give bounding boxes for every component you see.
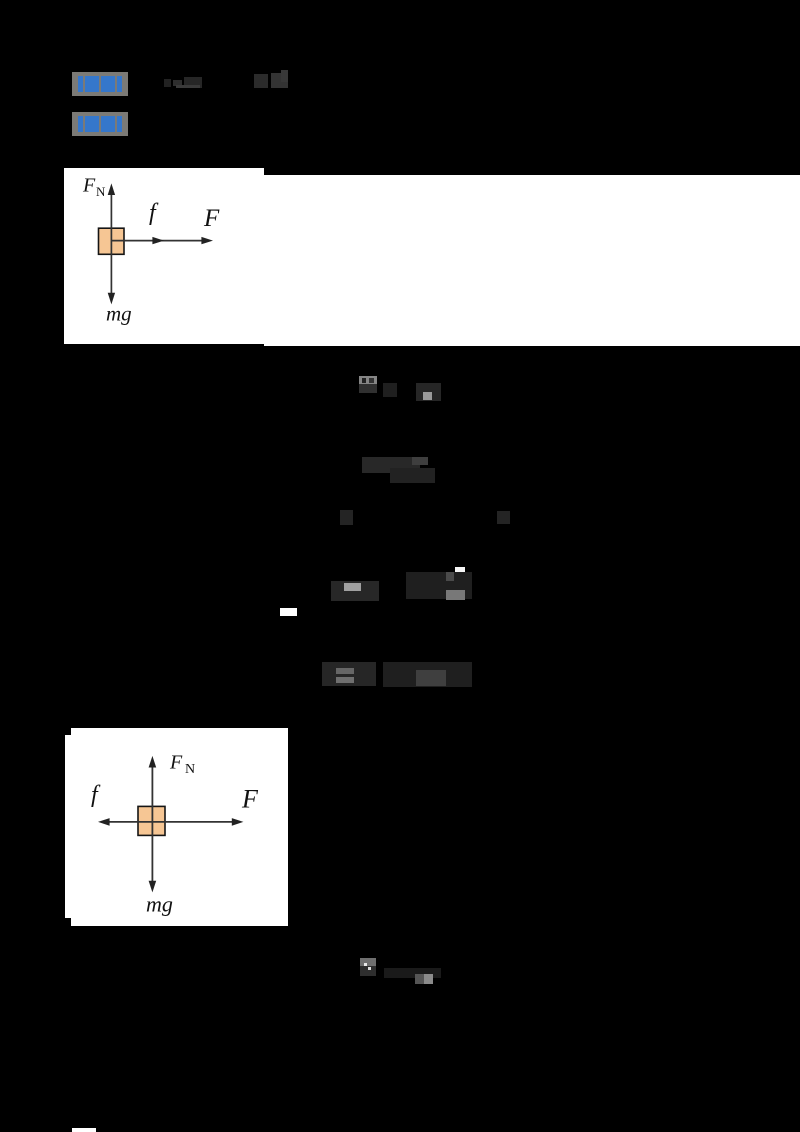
- svg-text:mg: mg: [106, 302, 132, 326]
- svg-text:F: F: [203, 205, 220, 232]
- svg-text:F: F: [82, 175, 96, 197]
- svg-text:F: F: [169, 752, 183, 774]
- svg-text:N: N: [185, 762, 195, 777]
- svg-text:mg: mg: [146, 892, 173, 917]
- svg-text:F: F: [241, 784, 259, 813]
- svg-text:N: N: [96, 184, 106, 199]
